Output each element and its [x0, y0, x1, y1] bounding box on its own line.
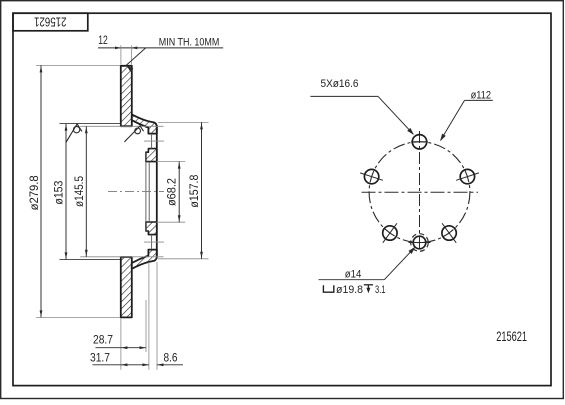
counterbore note ⌴ø19.8 depth 3.1 — [323, 284, 385, 296]
dimension ø153 — [53, 124, 120, 260]
wall inner face edge in bore window — [148, 162, 150, 222]
dimension 31.7 — [90, 353, 149, 367]
svg-text:ø279.8: ø279.8 — [29, 175, 41, 210]
bolt hole 4 (ø16.6) — [383, 223, 397, 243]
svg-text:ø153: ø153 — [53, 181, 65, 205]
leader ø112 — [440, 90, 493, 142]
bolt hole 3 (ø16.6) — [456, 169, 479, 183]
bottom extension lines — [120, 319, 122, 370]
dimension 28.7 — [93, 335, 146, 350]
leader ø14 — [319, 247, 416, 280]
surface roughness symbol on ø153 line — [66, 124, 82, 142]
leader 5Xø16.6 — [310, 78, 414, 135]
bolt circle ø112 (dash-dot) — [369, 142, 470, 243]
hat flange upper band (hatched) — [132, 114, 157, 133]
svg-text:5Xø16.6: 5Xø16.6 — [321, 78, 359, 90]
bolt hole centerline bottom — [144, 241, 164, 243]
vertical centerline — [419, 131, 421, 251]
hat flange lower band (hatched) — [132, 250, 157, 269]
svg-text:28.7: 28.7 — [93, 335, 113, 347]
svg-text:MIN TH. 10MM: MIN TH. 10MM — [159, 36, 220, 48]
bolt hole far edge (bottom gap) — [151, 235, 153, 250]
svg-text:ø157.8: ø157.8 — [189, 175, 201, 208]
svg-text:3.1: 3.1 — [375, 284, 386, 296]
dimension ø279.8 — [29, 65, 120, 317]
dimension 12 disc thickness — [98, 35, 223, 64]
wall outer face line through bolt gaps — [156, 125, 158, 258]
svg-text:12: 12 — [98, 35, 108, 47]
bolt hole 1 (ø16.6) — [411, 135, 428, 149]
dimension ø157.8 — [158, 122, 209, 258]
leader MIN TH. 10MM — [126, 36, 219, 72]
surface roughness symbol on flange inner line — [124, 126, 143, 142]
svg-text:ø68.2: ø68.2 — [167, 178, 179, 206]
svg-text:ø19.8: ø19.8 — [336, 284, 363, 296]
svg-text:215621: 215621 — [496, 329, 527, 344]
hub wall segment below top bolt hole (hatched) — [146, 149, 157, 162]
bolt hole far edge (top gap) — [151, 134, 153, 149]
disc friction ring section (hatched) — [121, 66, 132, 126]
bore step edge visible line — [145, 152, 147, 231]
svg-text:8.6: 8.6 — [164, 353, 178, 365]
svg-text:31.7: 31.7 — [90, 353, 110, 365]
bolt hole 2 (ø16.6) — [360, 169, 383, 183]
bolt hole centerline top — [144, 140, 164, 142]
svg-text:ø145.5: ø145.5 — [74, 176, 86, 207]
dimension ø68.2 — [157, 162, 186, 223]
bolt hole 5 (ø16.6) — [442, 223, 456, 243]
hub wall segment above bottom bolt hole (hatched) — [146, 222, 157, 235]
svg-text:ø14: ø14 — [345, 268, 362, 280]
dimension 8.6 — [157, 353, 183, 367]
svg-text:ø112: ø112 — [471, 90, 492, 102]
disc ring lower section (hatched) — [121, 257, 132, 317]
horizontal centerline — [362, 191, 479, 193]
svg-text:215621: 215621 — [34, 15, 67, 30]
view centerline — [108, 191, 164, 193]
title box top-left — [13, 13, 88, 31]
dimension ø145.5 — [74, 126, 164, 256]
center pilot hole ø14 with ø19.8 counterbore — [409, 234, 431, 252]
